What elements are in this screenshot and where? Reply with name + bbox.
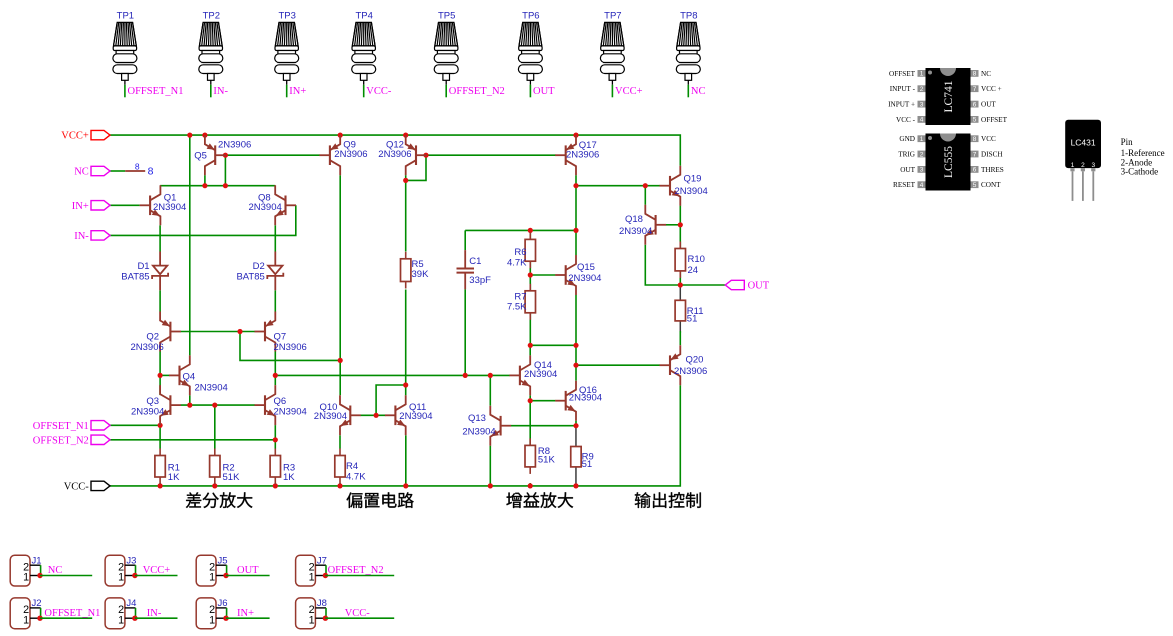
wire R8 bottom xyxy=(529,483,531,486)
svg-text:BAT85: BAT85 xyxy=(236,271,264,282)
wire TP1 net xyxy=(124,85,126,98)
junction (530.3,230.4) xyxy=(528,228,533,233)
diode D2 BAT85 xyxy=(267,252,283,291)
svg-text:6: 6 xyxy=(973,167,977,174)
junction (405.7,385) xyxy=(403,382,408,387)
wire Q5 collector drop xyxy=(204,175,206,186)
svg-text:2N3906: 2N3906 xyxy=(674,366,707,377)
wire pin2 to pin1 of J7 xyxy=(325,565,327,575)
svg-text:2N3906: 2N3906 xyxy=(274,342,307,353)
pin of TP6 xyxy=(529,80,531,85)
wire Q3 emitter to R1 xyxy=(159,425,161,448)
pin of TP7 xyxy=(611,80,613,85)
wire Q16 base line xyxy=(530,400,555,402)
svg-text:1: 1 xyxy=(309,614,315,626)
svg-text:OFFSET: OFFSET xyxy=(889,70,916,78)
pin 2 stub of J7 xyxy=(315,564,326,566)
svg-text:2N3904: 2N3904 xyxy=(399,411,432,422)
resistor R9 xyxy=(571,447,581,467)
wire TP8 net xyxy=(687,85,689,98)
svg-text:VCC-: VCC- xyxy=(64,482,90,493)
junction (576,425.7) xyxy=(573,423,578,428)
pin 2 stub of J6 xyxy=(216,607,227,609)
pin 1 stub of J7 xyxy=(315,575,324,577)
wire pin2 to pin1 of J4 xyxy=(135,608,137,618)
junction (530.2,400.7) xyxy=(528,398,533,403)
wire Q15 emitter to R7 node xyxy=(575,295,577,345)
pin of TP8 xyxy=(687,80,689,85)
svg-text:OFFSET_N2: OFFSET_N2 xyxy=(33,436,89,447)
junction at J2 pin 1 xyxy=(37,616,42,621)
wire IN+ to Q1 base xyxy=(110,204,140,206)
connector J3 xyxy=(105,555,125,586)
junction (405.7,180.4) xyxy=(403,178,408,183)
capacitor C1 xyxy=(457,250,475,289)
svg-text:NC: NC xyxy=(74,167,89,178)
wire R3 bottom xyxy=(274,483,276,486)
transistor Q11 xyxy=(385,395,406,435)
connector J7 xyxy=(296,555,316,586)
svg-text:IN-: IN- xyxy=(147,608,162,619)
svg-text:2N3904: 2N3904 xyxy=(675,186,708,197)
svg-text:39K: 39K xyxy=(412,269,430,280)
svg-text:2N3904: 2N3904 xyxy=(569,392,602,403)
junction (680.3,285) xyxy=(678,282,683,287)
wire Q12 base-collector loop xyxy=(406,155,426,180)
resistor R7 xyxy=(529,284,531,291)
wire Q14 emitter to Q16 base node xyxy=(529,395,531,400)
junction at J3 pin 1 xyxy=(132,573,137,578)
IC package LC431 (TO-252) xyxy=(1065,120,1101,168)
pin 1 stub of J4 xyxy=(125,617,134,619)
pin 1 stub of J1 xyxy=(30,575,39,577)
resistor R1 xyxy=(159,449,161,456)
wire Q5 base drop to node A xyxy=(224,155,226,186)
connector J6 xyxy=(196,598,216,629)
svg-text:NC: NC xyxy=(691,86,706,97)
junction (530.3,275) xyxy=(528,272,533,277)
connector J5 xyxy=(196,555,216,586)
port IN- xyxy=(91,231,110,240)
junction (680.3,224.8) xyxy=(678,222,683,227)
svg-text:7: 7 xyxy=(973,151,977,158)
wire Q14 emitter node to R8 xyxy=(529,401,531,449)
svg-text:1: 1 xyxy=(920,136,924,143)
svg-text:TP2: TP2 xyxy=(203,11,220,22)
wire J1 net xyxy=(40,575,92,577)
wire J7 net xyxy=(325,575,394,577)
svg-text:2N3904: 2N3904 xyxy=(619,226,652,237)
svg-text:OUT: OUT xyxy=(237,565,259,576)
svg-text:2N3906: 2N3906 xyxy=(378,149,411,160)
svg-text:8: 8 xyxy=(148,165,154,177)
svg-text:IN+: IN+ xyxy=(237,608,254,619)
wire R7 bottom node line xyxy=(530,344,576,346)
junction at J4 pin 1 xyxy=(132,616,137,621)
transistor Q8 xyxy=(275,185,296,225)
junction (645.3,185.7) xyxy=(643,183,648,188)
svg-text:OUT: OUT xyxy=(748,281,770,292)
svg-text:Q2: Q2 xyxy=(146,332,159,343)
wire Q5 base to Q9 base xyxy=(225,154,319,156)
svg-text:5: 5 xyxy=(973,182,977,189)
wire NC pin stub net xyxy=(110,170,125,172)
svg-text:1: 1 xyxy=(1071,162,1075,169)
junction (426,155.2) xyxy=(423,153,428,158)
resistor R11 xyxy=(675,300,685,321)
svg-text:3: 3 xyxy=(920,101,924,108)
svg-text:NC: NC xyxy=(981,70,991,78)
wire R10 bottom to OUT node xyxy=(679,271,681,285)
svg-text:GND: GND xyxy=(899,135,915,143)
wire C1 top xyxy=(464,230,466,250)
transistor Q1 xyxy=(140,185,161,225)
svg-text:1: 1 xyxy=(309,572,315,584)
pin 2 stub of J2 xyxy=(30,607,41,609)
svg-text:IN+: IN+ xyxy=(72,201,89,212)
svg-text:DISCH: DISCH xyxy=(981,151,1003,159)
svg-text:1: 1 xyxy=(23,614,29,626)
junction (576,185.7) xyxy=(573,183,578,188)
svg-text:Pin: Pin xyxy=(1121,137,1134,147)
svg-text:3: 3 xyxy=(1091,162,1095,169)
svg-text:OFFSET_N1: OFFSET_N1 xyxy=(33,421,89,432)
IC package LC741 (DIP-8) xyxy=(926,68,971,125)
wire R11 to Q20 emitter xyxy=(679,331,681,345)
wire J2 net xyxy=(40,617,92,619)
wire Q16 emitter stub xyxy=(575,421,577,426)
wire OFFSET_N1 net xyxy=(110,424,160,426)
wire R1 bottom xyxy=(159,483,161,486)
wire J8 net xyxy=(325,617,394,619)
wire R11 bottom (dark) xyxy=(679,321,681,333)
pin 2 stub of J5 xyxy=(216,564,227,566)
junction (214.8,485.9) xyxy=(212,483,217,488)
port OFFSET_N1 xyxy=(91,421,110,430)
svg-text:1: 1 xyxy=(118,572,124,584)
transistor Q5 xyxy=(205,135,226,175)
svg-text:1: 1 xyxy=(23,572,29,584)
junction at J1 pin 1 xyxy=(37,573,42,578)
svg-text:5: 5 xyxy=(973,117,977,124)
junction (340.2,135.1) xyxy=(338,133,343,138)
junction (275.3,375.4) xyxy=(273,373,278,378)
junction (204.9,185.7) xyxy=(202,183,207,188)
junction (530.2,485.9) xyxy=(528,483,533,488)
test point TP6 xyxy=(518,22,542,80)
svg-text:3: 3 xyxy=(920,167,924,174)
svg-text:8: 8 xyxy=(135,161,140,171)
svg-text:VCC+: VCC+ xyxy=(143,565,171,576)
svg-text:2N3904: 2N3904 xyxy=(524,369,557,380)
junction (214.8,405.1) xyxy=(212,403,217,408)
wire J6 net xyxy=(226,617,270,619)
svg-text:4: 4 xyxy=(920,117,924,124)
transistor Q9 xyxy=(319,135,340,175)
junction at J8 pin 1 xyxy=(323,616,328,621)
svg-text:INPUT +: INPUT + xyxy=(888,101,915,109)
wire pin2 to pin1 of J6 xyxy=(226,608,228,618)
pin 2 stub of J3 xyxy=(125,564,136,566)
svg-text:Q5: Q5 xyxy=(194,150,207,161)
junction (576,135.1) xyxy=(573,133,578,138)
svg-text:VCC-: VCC- xyxy=(345,608,371,619)
resistor R6 xyxy=(529,232,531,239)
pin 1 stub of J6 xyxy=(216,617,225,619)
svg-text:TP1: TP1 xyxy=(117,11,134,22)
svg-text:33pF: 33pF xyxy=(469,275,491,286)
svg-text:1-Reference: 1-Reference xyxy=(1121,148,1165,158)
wire D1 to Q2 emitter xyxy=(159,290,161,311)
transistor Q7 xyxy=(255,312,276,352)
wire R9 bottom (dark) xyxy=(575,467,577,486)
resistor R3 xyxy=(274,449,276,456)
svg-text:1K: 1K xyxy=(168,472,180,483)
svg-text:2N3904: 2N3904 xyxy=(131,406,164,417)
svg-text:51K: 51K xyxy=(223,472,241,483)
wire VCC+ rail xyxy=(110,135,680,166)
wire R4 bottom xyxy=(339,483,341,486)
svg-text:TP5: TP5 xyxy=(438,11,455,22)
wire Q15/Q16 column xyxy=(575,345,577,380)
wire Q4 emitter drop xyxy=(189,395,191,405)
wire Q10 base to Q11 base xyxy=(361,414,386,416)
wire Q14 collector rise xyxy=(529,345,531,355)
svg-text:8: 8 xyxy=(973,136,977,143)
junction (204.9,135.1) xyxy=(202,133,207,138)
wire Q1 emitter to D1 xyxy=(159,225,161,251)
connector J2 xyxy=(10,598,30,629)
svg-text:OFFSET_N2: OFFSET_N2 xyxy=(449,86,505,97)
svg-text:4.7K: 4.7K xyxy=(507,258,527,269)
svg-text:CONT: CONT xyxy=(981,181,1001,189)
resistor R5 xyxy=(405,252,407,259)
svg-text:2: 2 xyxy=(1081,162,1085,169)
svg-text:LC431: LC431 xyxy=(1071,138,1096,148)
pin of TP4 xyxy=(363,80,365,85)
wire Q17 collector column xyxy=(575,175,577,255)
svg-text:IN-: IN- xyxy=(213,86,228,97)
wire R7 top connect xyxy=(529,275,531,292)
svg-text:THRES: THRES xyxy=(981,166,1004,174)
svg-text:LC555: LC555 xyxy=(943,146,955,178)
junction (575.95,485.9) xyxy=(573,483,578,488)
test point TP8 xyxy=(676,22,700,80)
junction (340,485.9) xyxy=(337,483,342,488)
wire TP4 net xyxy=(363,85,365,98)
wire Q2 base to Q7 base xyxy=(181,331,255,333)
wire Q16 collector to Q20 base line xyxy=(576,364,660,366)
wire base line to R2 xyxy=(214,405,216,448)
pin 1 stub of J2 xyxy=(30,617,39,619)
wire R6 top connect xyxy=(529,230,531,240)
wire node B to Q4 base xyxy=(160,374,169,376)
svg-text:R10: R10 xyxy=(688,254,705,265)
transistor Q16 xyxy=(555,381,576,421)
svg-text:OUT: OUT xyxy=(533,86,555,97)
svg-text:NC: NC xyxy=(48,565,63,576)
junction at J6 pin 1 xyxy=(223,616,228,621)
test point TP7 xyxy=(600,22,624,80)
pin of TP1 xyxy=(124,80,126,85)
transistor Q18 xyxy=(645,205,666,245)
wire Q11 emitter to VCC- rail xyxy=(405,435,407,486)
wire C1/R6 node line xyxy=(465,229,576,231)
port NC xyxy=(91,166,110,175)
transistor Q2 xyxy=(160,312,181,352)
wire R6 bottom connect xyxy=(529,260,531,275)
junction (340.2,360.4) xyxy=(338,358,343,363)
svg-text:2N3904: 2N3904 xyxy=(195,383,228,394)
svg-text:VCC+: VCC+ xyxy=(61,131,89,142)
svg-text:VCC+: VCC+ xyxy=(615,86,643,97)
wire R10 top xyxy=(679,225,681,249)
section label 偏置电路 (bias circuit) xyxy=(347,492,363,508)
section label 增益放大 (gain amplifier) xyxy=(506,493,522,508)
svg-text:OFFSET_N1: OFFSET_N1 xyxy=(128,86,184,97)
svg-text:C1: C1 xyxy=(469,256,481,267)
svg-text:4.7K: 4.7K xyxy=(346,471,366,482)
wire Q7 collector drop xyxy=(274,352,276,376)
svg-text:2N3904: 2N3904 xyxy=(462,426,495,437)
wire VCC- rail xyxy=(110,385,680,486)
wire pin2 to pin1 of J8 xyxy=(325,608,327,618)
svg-text:BAT85: BAT85 xyxy=(121,271,149,282)
junction (160.1,485.9) xyxy=(158,483,163,488)
svg-text:51: 51 xyxy=(687,313,698,324)
wire Q2 collector to node B xyxy=(159,352,161,376)
wire Q18 emitter to OUT node xyxy=(645,245,680,285)
svg-text:8: 8 xyxy=(973,71,977,78)
svg-text:TP3: TP3 xyxy=(278,11,295,22)
svg-text:Q13: Q13 xyxy=(468,413,486,424)
pin of TP2 xyxy=(210,80,212,85)
svg-text:Q3: Q3 xyxy=(146,396,159,407)
wire J4 net xyxy=(135,617,178,619)
wire TP7 net xyxy=(611,85,613,98)
wire VCC+ to Q4 collector xyxy=(189,135,191,355)
test point TP5 xyxy=(434,22,458,80)
svg-text:2N3904: 2N3904 xyxy=(568,273,601,284)
wire J5 net xyxy=(226,575,270,577)
svg-text:2: 2 xyxy=(920,86,924,93)
svg-text:Q19: Q19 xyxy=(684,174,702,185)
svg-text:2N3906: 2N3906 xyxy=(218,140,251,151)
wire Q18 collector rise xyxy=(644,186,646,205)
pin 2 stub of J1 xyxy=(30,564,41,566)
port OUT xyxy=(725,280,744,289)
junction (490.3,485.9) xyxy=(488,483,493,488)
transistor Q17 xyxy=(555,135,576,175)
resistor R4 xyxy=(339,449,341,456)
svg-text:24: 24 xyxy=(688,265,699,276)
junction (576,365.2) xyxy=(573,363,578,368)
resistor R2 xyxy=(214,449,216,456)
wire TP2 net xyxy=(210,85,212,98)
wire Q13 base to Q16 emitter node xyxy=(511,425,576,427)
wire Q18 base connect xyxy=(666,224,680,226)
svg-text:Q20: Q20 xyxy=(686,355,704,366)
wire Q9 collector to Q10 collector xyxy=(339,175,341,395)
test point TP3 xyxy=(275,22,299,80)
port VCC- xyxy=(91,481,110,490)
svg-text:3-Cathode: 3-Cathode xyxy=(1121,167,1159,177)
pin 2 stub of J4 xyxy=(125,607,136,609)
svg-text:Q15: Q15 xyxy=(577,262,595,273)
pin 1 stub of J5 xyxy=(216,575,225,577)
pin 1 stub of J3 xyxy=(125,575,134,577)
pin of TP5 xyxy=(445,80,447,85)
wire R6/R7 node to Q15 base xyxy=(530,274,555,276)
transistor Q14 xyxy=(509,355,530,395)
junction (240,331.5) xyxy=(237,329,242,334)
wire TP5 net xyxy=(445,85,447,98)
section label 差分放大 (differential amplifier) xyxy=(186,492,201,508)
pin stub for NC port (pin 8) xyxy=(125,170,145,172)
test point TP2 xyxy=(199,22,223,80)
svg-text:2N3904: 2N3904 xyxy=(274,406,307,417)
svg-text:VCC-: VCC- xyxy=(366,86,392,97)
wire Q8 emitter to D2 xyxy=(274,225,276,251)
svg-text:IN+: IN+ xyxy=(289,86,306,97)
diode D1 BAT85 xyxy=(152,252,168,291)
wire IN- to Q8 base xyxy=(110,205,296,235)
port OFFSET_N2 xyxy=(91,435,110,444)
junction (530.3,345.3) xyxy=(528,343,533,348)
svg-text:TP8: TP8 xyxy=(680,11,697,22)
junction (405.7,135.1) xyxy=(403,133,408,138)
wire C1 bottom to node C xyxy=(464,289,466,375)
resistor R8 xyxy=(529,438,531,445)
resistor R10 xyxy=(679,242,681,249)
transistor Q3 xyxy=(160,385,181,425)
wire node C line to Q14 base xyxy=(275,374,509,376)
svg-text:R6: R6 xyxy=(514,247,526,258)
svg-text:1: 1 xyxy=(920,71,924,78)
junction (465.2,375.4) xyxy=(463,373,468,378)
svg-text:7.5K: 7.5K xyxy=(507,301,527,312)
wire Q12 collector to R5 xyxy=(405,175,407,251)
wire Q12 base to Q17 base xyxy=(426,154,556,156)
svg-text:LC741: LC741 xyxy=(943,80,955,112)
wire pin2 to pin1 of J3 xyxy=(135,565,137,575)
wire D2 to Q7 emitter xyxy=(274,290,276,311)
svg-text:2N3904: 2N3904 xyxy=(249,202,282,213)
junction (189.8,405.1) xyxy=(187,403,192,408)
junction (160.1,425.3) xyxy=(158,423,163,428)
svg-text:2: 2 xyxy=(920,151,924,158)
wire R5 to Q11 collector xyxy=(405,290,407,396)
transistor Q15 xyxy=(555,255,576,295)
junction (490.3,375.4) xyxy=(488,373,493,378)
svg-text:OUT: OUT xyxy=(981,101,996,109)
junction at J7 pin 1 xyxy=(323,573,328,578)
junction (275.3,485.9) xyxy=(273,483,278,488)
wire OFFSET_N2 net xyxy=(110,439,275,441)
wire Q13 collector to node C xyxy=(489,375,491,405)
svg-text:2N3906: 2N3906 xyxy=(131,342,164,353)
wire pin2 to pin1 of J5 xyxy=(226,565,228,575)
wire R9 top (dark) xyxy=(575,426,577,447)
svg-text:Q6: Q6 xyxy=(274,396,287,407)
wire TP3 net xyxy=(286,85,288,98)
wire TP6 net xyxy=(529,85,531,98)
junction (376.1,415.3) xyxy=(374,413,379,418)
transistor Q4 xyxy=(169,355,190,395)
wire Q19 emitter to R10 node xyxy=(679,206,681,225)
svg-text:1K: 1K xyxy=(283,472,295,483)
svg-text:OUT: OUT xyxy=(900,166,915,174)
